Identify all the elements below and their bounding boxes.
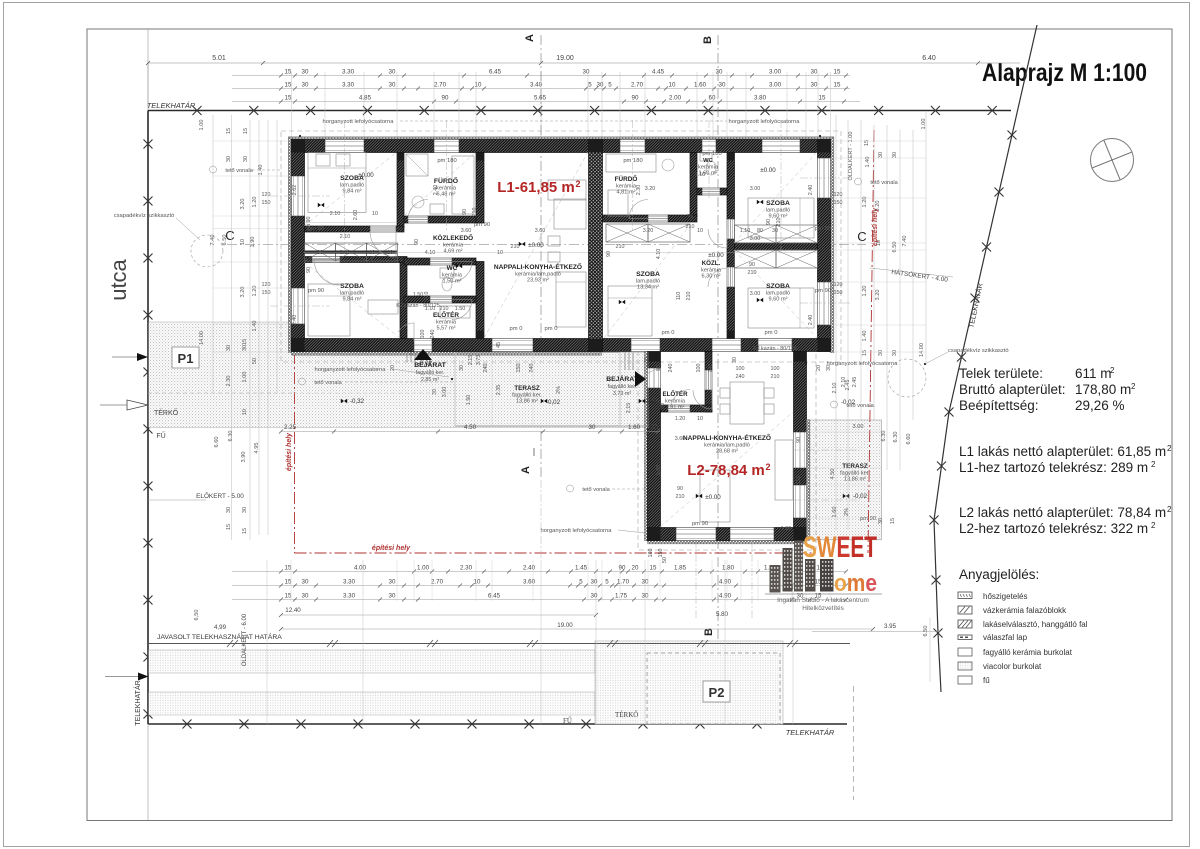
svg-text:3.00: 3.00 (769, 82, 782, 89)
svg-text:1.00: 1.00 (417, 565, 430, 572)
svg-text:SZOBA: SZOBA (636, 271, 660, 278)
svg-text:2%: 2% (556, 386, 562, 394)
svg-text:6.30: 6.30 (893, 432, 899, 443)
svg-text:2.10: 2.10 (340, 234, 351, 240)
svg-text:pm 90: pm 90 (474, 222, 490, 228)
bottom-left boundary arrow (138, 673, 149, 681)
svg-text:15: 15 (226, 524, 232, 530)
svg-text:1.50: 1.50 (413, 292, 424, 298)
svg-text:ELŐTÉR: ELŐTÉR (662, 390, 688, 398)
svg-text:vázkerámia falazóblokk: vázkerámia falazóblokk (983, 606, 1067, 615)
bed szoba top-left (308, 153, 366, 213)
svg-text:30: 30 (591, 579, 598, 586)
L2 furdo fixtures (606, 154, 656, 172)
svg-text:A: A (520, 466, 532, 474)
svg-text:100: 100 (696, 364, 702, 373)
overall dimension line with 5.01 / 19.00 / 6.40 (148, 62, 1020, 64)
svg-text:3.90: 3.90 (656, 465, 662, 476)
svg-text:30: 30 (878, 152, 884, 158)
svg-text:-0,02: -0,02 (418, 360, 433, 367)
svg-text:OLDALKERT - 1.00: OLDALKERT - 1.00 (848, 132, 854, 181)
paved front area texture (terko) (149, 322, 648, 428)
svg-text:±0.00: ±0.00 (528, 242, 544, 249)
svg-text:30: 30 (432, 389, 438, 395)
bottom dimension 19.00 line (281, 628, 873, 630)
svg-text:FŰ: FŰ (156, 431, 165, 440)
svg-text:1.10: 1.10 (695, 172, 706, 178)
P2 paved area bottom (595, 641, 783, 724)
wardrobe row L1 corridor (305, 243, 336, 261)
svg-text:30: 30 (389, 69, 396, 76)
svg-text:15: 15 (285, 69, 292, 76)
extension lines terrace zone (454, 352, 456, 428)
svg-text:Anyagjelölés:: Anyagjelölés: (959, 567, 1039, 582)
svg-text:2.15: 2.15 (626, 403, 632, 414)
svg-text:4.95: 4.95 (254, 443, 260, 454)
svg-text:2.62: 2.62 (292, 185, 298, 196)
partition: wc top wall (404, 258, 430, 265)
svg-text:110: 110 (676, 292, 682, 301)
svg-text:150: 150 (834, 290, 843, 296)
svg-text:2.45: 2.45 (845, 380, 851, 391)
svg-text:30: 30 (772, 228, 778, 234)
svg-text:1.20: 1.20 (675, 416, 686, 422)
svg-text:210: 210 (676, 494, 685, 500)
svg-text:30: 30 (242, 507, 248, 513)
svg-text:horganyzott lefolyócsatorna: horganyzott lefolyócsatorna (323, 119, 395, 125)
svg-text:30: 30 (302, 593, 309, 600)
svg-text:1.60: 1.60 (694, 82, 707, 89)
svg-text:3.80: 3.80 (754, 95, 767, 102)
svg-text:3.60: 3.60 (523, 579, 536, 586)
wall: left exterior (292, 140, 305, 177)
svg-text:-0,02: -0,02 (853, 493, 868, 500)
roof outline dashed upper wing (281, 131, 841, 362)
vertical extension stubs above bottom dim rows (290, 560, 292, 601)
svg-text:4.90: 4.90 (719, 579, 732, 586)
svg-text:SZOBA: SZOBA (766, 200, 790, 207)
svg-text:30: 30 (317, 250, 323, 256)
insulation band bottom-left exterior (292, 352, 602, 355)
svg-text:TERASZ: TERASZ (514, 385, 540, 392)
svg-text:2.40: 2.40 (523, 565, 536, 572)
partition: wc/eloter right wall lower (476, 262, 484, 339)
svg-text:2.40: 2.40 (808, 315, 814, 326)
svg-text:100: 100 (736, 366, 745, 372)
top dimension row B (232, 88, 850, 90)
svg-text:210: 210 (686, 292, 692, 301)
svg-text:tető vonala: tető vonala (314, 380, 342, 386)
partition: L2 wc bottom (697, 188, 702, 195)
svg-text:4.90: 4.90 (719, 593, 732, 600)
P1 parking box (172, 347, 199, 368)
P2 dashed inner area (647, 653, 780, 724)
bottom dimension 12.40 line (281, 614, 596, 616)
svg-text:3.30: 3.30 (342, 82, 355, 89)
top dimension row A (232, 75, 850, 77)
svg-text:14.00: 14.00 (199, 331, 205, 345)
L2 wc fixture (706, 161, 716, 175)
svg-text:30: 30 (302, 82, 309, 89)
extension lines top (291, 72, 293, 138)
svg-text:SZOBA: SZOBA (340, 283, 364, 290)
svg-text:3.20: 3.20 (645, 186, 656, 192)
svg-text:NAPPALI-KONYHA-ÉTKEZŐ: NAPPALI-KONYHA-ÉTKEZŐ (683, 433, 771, 442)
svg-text:3.00: 3.00 (769, 69, 782, 76)
svg-text:NAPPALI-KONYHA-ÉTKEZŐ: NAPPALI-KONYHA-ÉTKEZŐ (494, 262, 582, 271)
section line A vertical (540, 35, 542, 480)
svg-text:30: 30 (226, 345, 232, 351)
svg-text:15: 15 (650, 565, 657, 572)
wall: lower wing right exterior (794, 352, 807, 433)
svg-text:1.00: 1.00 (199, 120, 205, 131)
svg-text:30: 30 (644, 357, 650, 363)
svg-text:3.30: 3.30 (343, 593, 356, 600)
svg-text:SZOBA: SZOBA (766, 283, 790, 290)
svg-text:15: 15 (285, 95, 292, 102)
legend swatch fagyallo (958, 648, 972, 656)
svg-text:3.30: 3.30 (342, 69, 355, 76)
left black arrow (137, 353, 148, 361)
logo buildings (770, 541, 834, 593)
svg-text:horganyzott lefolyócsatorna: horganyzott lefolyócsatorna (541, 528, 613, 534)
svg-text:lakáselválasztó, hanggátló fal: lakáselválasztó, hanggátló fal (983, 620, 1088, 629)
sweet home logo (803, 531, 877, 564)
svg-text:3.00: 3.00 (853, 424, 864, 430)
svg-text:TELEKHATÁR: TELEKHATÁR (133, 680, 142, 725)
svg-text:15: 15 (242, 528, 248, 534)
svg-text:90: 90 (306, 267, 312, 273)
svg-text:2: 2 (1151, 460, 1156, 469)
svg-text:3.20: 3.20 (643, 228, 654, 234)
svg-text:2.40: 2.40 (433, 185, 439, 196)
legend swatch valaszfal (958, 635, 972, 640)
bottom dimension row 1 (232, 571, 846, 573)
boundary X marks diagonal (1008, 131, 1017, 140)
svg-text:2.10: 2.10 (832, 383, 838, 394)
svg-text:1.20: 1.20 (252, 197, 258, 208)
svg-text:pm 90: pm 90 (815, 226, 831, 232)
door arcs (370, 231, 396, 257)
svg-text:1.75: 1.75 (615, 593, 628, 600)
svg-text:6,48 m²: 6,48 m² (437, 192, 456, 198)
svg-text:Ingatlan Stúdió - A lakáscentr: Ingatlan Stúdió - A lakáscentrum (777, 597, 869, 604)
insulation band left exterior (288, 137, 291, 353)
svg-text:2.70: 2.70 (434, 82, 447, 89)
svg-text:BEJÁRAT: BEJÁRAT (606, 374, 638, 383)
roof outline dashed lower wing (638, 340, 816, 550)
svg-text:6.45: 6.45 (488, 593, 501, 600)
svg-text:2.40: 2.40 (292, 315, 298, 326)
svg-text:120: 120 (262, 192, 271, 198)
terasz L2 outline inner (806, 420, 808, 540)
dim chain row under building y=431 (281, 431, 660, 433)
svg-text:2: 2 (1167, 444, 1172, 453)
svg-text:Hitelközvetítés: Hitelközvetítés (802, 605, 844, 612)
svg-text:6.40: 6.40 (922, 55, 936, 62)
svg-text:1.85: 1.85 (674, 565, 687, 572)
horizontal extension lines right of building (831, 140, 927, 142)
svg-text:210: 210 (686, 224, 695, 230)
svg-text:3.60: 3.60 (675, 436, 686, 442)
wall: right exterior (818, 140, 831, 159)
L2 dining table (730, 382, 764, 424)
bed L2 szoba top-right (748, 198, 814, 238)
bed L2 szoba mid (608, 286, 652, 336)
svg-text:30: 30 (389, 579, 396, 586)
svg-text:4.10: 4.10 (656, 249, 662, 260)
svg-text:4,81 m²: 4,81 m² (617, 190, 636, 196)
svg-text:120: 120 (834, 192, 843, 198)
svg-text:6,30 m²: 6,30 m² (702, 274, 721, 280)
bottom dimension row 2 (232, 585, 846, 587)
partition: right szoba divider (735, 243, 818, 250)
svg-text:3.60: 3.60 (461, 228, 472, 234)
svg-text:fagyálló ker.: fagyálló ker. (608, 384, 637, 390)
logo caption (765, 593, 882, 595)
boundary: top telekhatar line (148, 110, 1011, 112)
svg-text:30: 30 (716, 69, 723, 76)
svg-text:15: 15 (285, 82, 292, 89)
svg-text:10: 10 (497, 250, 503, 256)
furdo L1 fixtures (452, 156, 474, 214)
svg-text:1.50: 1.50 (466, 395, 472, 406)
wall: top exterior (292, 140, 326, 153)
svg-text:6.60: 6.60 (906, 434, 912, 445)
bejarat L2 triangle (635, 371, 646, 387)
wardrobe band L2 right top (735, 225, 777, 243)
svg-text:3.00: 3.00 (442, 387, 448, 398)
svg-text:3.20: 3.20 (240, 199, 246, 210)
svg-text:FÜRDŐ: FÜRDŐ (434, 176, 458, 185)
svg-text:3.40: 3.40 (530, 82, 543, 89)
svg-text:13,86 m²: 13,86 m² (516, 399, 538, 405)
svg-text:2: 2 (1151, 521, 1156, 530)
svg-text:15: 15 (819, 95, 826, 102)
svg-text:KJ kazán - 80/125: KJ kazán - 80/125 (753, 346, 796, 352)
svg-text:210: 210 (424, 292, 430, 301)
svg-text:horganyzott lefolyócsatorna: horganyzott lefolyócsatorna (729, 119, 801, 125)
svg-text:611 m: 611 m (1075, 366, 1112, 381)
svg-text:pm 90: pm 90 (815, 288, 831, 294)
terko dashed split line (148, 392, 293, 394)
svg-text:150: 150 (516, 364, 522, 373)
svg-text:pm 0: pm 0 (765, 330, 778, 336)
bottom dimension row 3 (232, 599, 846, 601)
svg-text:210: 210 (472, 208, 478, 217)
boundary X marks top (193, 106, 202, 115)
epitesi hely red dash-dot bottom (295, 552, 813, 554)
svg-text:2,91 m²: 2,91 m² (666, 405, 685, 411)
svg-text:240: 240 (483, 364, 489, 373)
svg-text:pm 180: pm 180 (702, 151, 721, 157)
svg-text:-0,02: -0,02 (645, 398, 660, 405)
svg-text:5: 5 (579, 579, 583, 586)
svg-text:L1-hez tartozó telekrész: 289: L1-hez tartozó telekrész: 289 m (959, 460, 1148, 475)
svg-text:7.40: 7.40 (902, 236, 908, 247)
left white arrow (127, 400, 148, 410)
svg-text:2.30: 2.30 (226, 376, 232, 387)
svg-text:±0.00: ±0.00 (760, 167, 776, 174)
svg-text:hőszigetelés: hőszigetelés (983, 592, 1027, 601)
svg-text:15: 15 (834, 82, 841, 89)
svg-text:tető vonala: tető vonala (846, 403, 874, 409)
svg-text:4.10: 4.10 (425, 250, 436, 256)
partition: L2 furdo bottom wall (603, 215, 649, 222)
svg-text:150: 150 (834, 200, 843, 206)
horizontal extension lines right of wing (807, 419, 882, 421)
svg-text:10: 10 (697, 416, 703, 422)
svg-text:15: 15 (862, 350, 868, 356)
svg-text:6.50: 6.50 (222, 235, 228, 246)
svg-text:2: 2 (765, 462, 770, 472)
partition: wc / eloter divider (404, 296, 430, 303)
svg-text:30: 30 (892, 152, 898, 158)
svg-text:2.30: 2.30 (636, 185, 642, 196)
svg-text:30: 30 (811, 69, 818, 76)
svg-text:80: 80 (757, 228, 763, 234)
thin partition bar in corridor (valaszfal) (305, 251, 398, 254)
svg-text:1.45: 1.45 (575, 565, 588, 572)
partition: szoba1 / furdo (397, 153, 404, 229)
svg-text:210: 210 (511, 244, 520, 250)
svg-text:6.60: 6.60 (214, 437, 220, 448)
svg-text:TELEKHATÁR: TELEKHATÁR (147, 101, 196, 110)
svg-text:19.00: 19.00 (557, 622, 573, 629)
svg-text:2: 2 (575, 179, 580, 189)
partition: furdo right wall upper (476, 153, 484, 224)
svg-text:pm 90: pm 90 (306, 217, 312, 232)
svg-text:90: 90 (462, 209, 468, 215)
L2 kitchen counter (775, 440, 793, 500)
svg-text:240: 240 (668, 364, 674, 373)
svg-text:2.30: 2.30 (460, 565, 473, 572)
svg-text:100: 100 (771, 366, 780, 372)
svg-text:14.00: 14.00 (919, 343, 925, 357)
epitesi hely red dash-dot left (294, 352, 296, 553)
svg-text:építési hely: építési hely (286, 432, 293, 471)
svg-text:L2-78,84 m: L2-78,84 m (687, 462, 765, 479)
bed szoba bottom-left (308, 284, 350, 336)
svg-text:1.40: 1.40 (862, 331, 868, 342)
svg-text:4.85: 4.85 (359, 95, 372, 102)
svg-text:TÉRKŐ: TÉRKŐ (615, 711, 638, 719)
svg-text:2: 2 (1110, 366, 1115, 375)
P2 box (703, 681, 730, 702)
svg-text:2.40: 2.40 (808, 185, 814, 196)
boundary: bottom telekhatar line (148, 723, 847, 725)
svg-text:tető vonala: tető vonala (870, 180, 898, 186)
svg-text:2.45: 2.45 (852, 377, 858, 388)
svg-text:30: 30 (732, 357, 738, 363)
legend swatch fu (958, 676, 972, 684)
svg-text:2.00: 2.00 (669, 95, 682, 102)
svg-text:pm 90: pm 90 (692, 521, 708, 527)
svg-text:P2: P2 (709, 685, 725, 700)
svg-text:pm 90: pm 90 (860, 516, 876, 522)
wall: lower wing bottom exterior (648, 528, 677, 541)
wc L1 fixture (440, 268, 454, 278)
svg-text:JAVASOLT TELEKHASZNÁLAT HATÁRA: JAVASOLT TELEKHASZNÁLAT HATÁRA (157, 632, 282, 641)
svg-text:KÖZLEKEDŐ: KÖZLEKEDŐ (433, 233, 473, 242)
svg-text:3.30: 3.30 (343, 579, 356, 586)
svg-text:pm 0: pm 0 (545, 326, 558, 332)
svg-text:2.10: 2.10 (340, 250, 351, 256)
svg-text:2.70: 2.70 (431, 579, 444, 586)
svg-text:90: 90 (796, 437, 802, 443)
svg-text:6.50: 6.50 (923, 626, 929, 637)
svg-text:100: 100 (420, 330, 426, 339)
insulation band right exterior (831, 137, 834, 353)
L1 dining table chairs (548, 236, 560, 246)
top dimension row C (232, 101, 860, 103)
svg-text:75: 75 (687, 214, 693, 220)
bejarat L2 steps (624, 353, 626, 371)
svg-text:4.45: 4.45 (652, 69, 665, 76)
svg-text:4,69 m²: 4,69 m² (444, 249, 463, 255)
svg-text:L1-61,85 m: L1-61,85 m (497, 179, 575, 196)
svg-text:2%: 2% (844, 508, 850, 516)
svg-text:120: 120 (834, 282, 843, 288)
svg-text:5: 5 (605, 579, 609, 586)
svg-text:15: 15 (242, 339, 248, 345)
eloter L1 cabinet (440, 306, 470, 318)
svg-text:240: 240 (529, 364, 535, 373)
section line C horizontal (227, 244, 866, 246)
wall: lower wing left exterior (648, 352, 661, 369)
svg-text:30: 30 (878, 518, 884, 524)
epitesi hely red dash-dot right (868, 130, 874, 553)
svg-text:fű: fű (983, 676, 990, 685)
svg-text:150: 150 (658, 549, 664, 558)
svg-text:210: 210 (616, 244, 625, 250)
svg-text:tető vonala: tető vonala (582, 487, 610, 493)
svg-text:23,93 m²: 23,93 m² (527, 278, 549, 284)
boundary: left telekhatar line (147, 111, 149, 725)
corridor dimension chain line (304, 252, 588, 254)
svg-text:30: 30 (389, 82, 396, 89)
svg-text:válaszfal lap: válaszfal lap (983, 633, 1028, 642)
svg-text:10: 10 (474, 579, 481, 586)
svg-text:L2 lakás nettó alapterület: 78: L2 lakás nettó alapterület: 78,84 m (959, 505, 1166, 520)
boundary: diagonal right telekhatar (934, 25, 1037, 692)
section line B vertical (717, 35, 719, 648)
svg-text:30: 30 (389, 593, 396, 600)
svg-text:90: 90 (442, 95, 449, 102)
svg-text:pm 0: pm 0 (662, 330, 675, 336)
svg-text:horganyzott lefolyócsatorna: horganyzott lefolyócsatorna (315, 367, 387, 373)
svg-text:4,99: 4,99 (214, 624, 227, 631)
svg-text:30: 30 (589, 424, 596, 431)
legend swatch lakaselvalaszto (958, 620, 972, 628)
terasz L1 outline (455, 353, 620, 427)
dashed vertical below P2 (853, 686, 855, 800)
legend swatch viacolor (958, 662, 972, 670)
svg-text:3,73 m²: 3,73 m² (613, 391, 631, 397)
svg-text:15: 15 (834, 69, 841, 76)
svg-text:építési hely: építési hely (372, 545, 411, 552)
svg-text:150: 150 (796, 476, 802, 485)
svg-text:TÉRKŐ: TÉRKŐ (154, 408, 179, 417)
svg-text:B: B (702, 36, 714, 44)
svg-text:-0,02: -0,02 (546, 399, 561, 406)
svg-text:10: 10 (240, 239, 246, 245)
svg-text:pm 180: pm 180 (623, 158, 642, 164)
insulation band top exterior (292, 137, 831, 140)
boundary X marks bottom (183, 720, 192, 729)
svg-text:1.10: 1.10 (740, 228, 751, 234)
svg-text:10: 10 (369, 250, 375, 256)
